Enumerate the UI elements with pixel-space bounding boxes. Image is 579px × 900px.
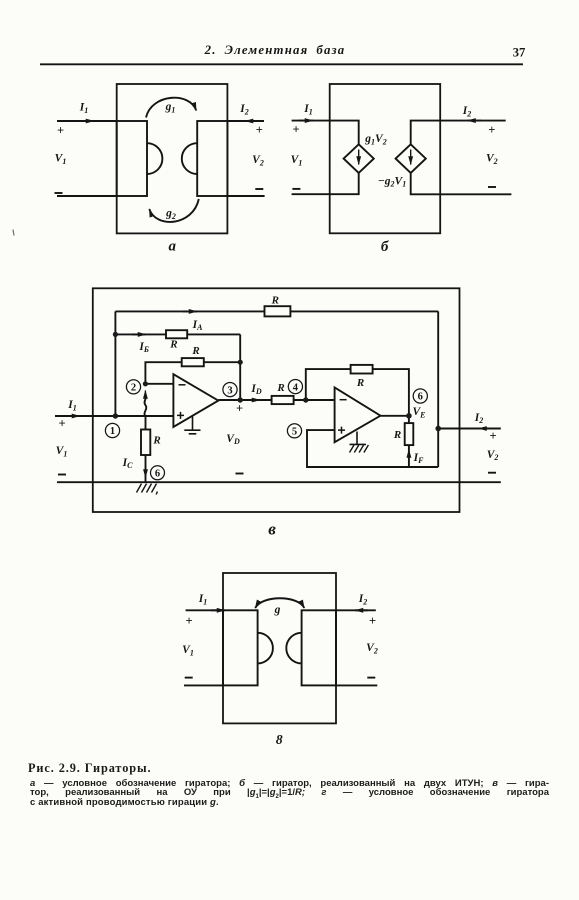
node 2 bbox=[126, 380, 140, 394]
port 2 bump (fig g) bbox=[286, 633, 301, 664]
port 1 semicircle bump bbox=[147, 143, 162, 174]
minus sign U1 bbox=[179, 384, 186, 386]
svg-text:I2: I2 bbox=[239, 103, 248, 116]
svg-text:+: + bbox=[58, 417, 65, 431]
svg-text:3: 3 bbox=[227, 385, 232, 396]
resistor R (node2 branch) bbox=[182, 358, 204, 366]
svg-text:+: + bbox=[369, 614, 376, 628]
svg-text:I2: I2 bbox=[474, 412, 483, 425]
op-amp U1 bbox=[173, 374, 218, 427]
gyrator outer box (fig a) bbox=[117, 84, 228, 233]
wire port1 top (fig b) bbox=[292, 121, 359, 145]
svg-text:2: 2 bbox=[131, 383, 136, 394]
port 2 rectangle (fig a) bbox=[197, 121, 227, 196]
header rule bbox=[40, 63, 523, 65]
node dot VE bbox=[406, 413, 412, 419]
svg-text:VD: VD bbox=[226, 433, 240, 446]
plus sign U2 bbox=[338, 427, 345, 434]
arrow IF up bbox=[408, 450, 410, 462]
node 6 at U2 output bbox=[413, 389, 427, 403]
figure caption bbox=[28, 761, 151, 776]
ground hatching at IC bbox=[137, 484, 158, 495]
arrow ID bbox=[246, 399, 260, 401]
ground under U2 bbox=[350, 432, 367, 445]
wire port2 top bbox=[227, 120, 264, 122]
minus sign V1 (fig a) bbox=[55, 192, 63, 194]
wire port2 top (fig g) bbox=[336, 609, 376, 611]
svg-text:+: + bbox=[488, 123, 495, 137]
svg-text:V1: V1 bbox=[56, 445, 68, 458]
svg-text:+: + bbox=[292, 122, 299, 136]
svg-text:а: а bbox=[169, 239, 177, 255]
output wire U2 bbox=[381, 415, 409, 417]
svg-text:б: б bbox=[381, 239, 389, 255]
svg-text:R: R bbox=[393, 429, 401, 441]
wire port1 bottom (fig g) bbox=[184, 684, 223, 686]
arrow IC down bbox=[145, 465, 147, 478]
wire port1 top bbox=[57, 120, 117, 122]
arrow I2 (fig v) bbox=[479, 428, 493, 430]
wire port2 top (fig b) bbox=[411, 121, 506, 145]
svg-text:R: R bbox=[191, 345, 199, 357]
source g2V1 diamond bbox=[396, 144, 426, 173]
arrow I1 (fig b) bbox=[299, 120, 313, 122]
svg-text:R: R bbox=[356, 377, 364, 389]
minus sign V1 (fig b) bbox=[292, 188, 300, 190]
g1 coupling arc with arrow bbox=[146, 98, 196, 118]
arrow inside right diamond bbox=[410, 150, 412, 165]
wire port2 bottom (fig g) bbox=[336, 684, 377, 686]
svg-text:IC: IC bbox=[122, 457, 133, 470]
svg-text:V2: V2 bbox=[486, 153, 498, 166]
svg-text:4: 4 bbox=[293, 382, 299, 393]
arrow I2 (fig a) bbox=[245, 120, 258, 122]
svg-text:R: R bbox=[276, 382, 284, 394]
minus sign U2 bbox=[340, 399, 347, 401]
minus sign left (fig v) bbox=[58, 474, 66, 476]
wire R to node 2 bbox=[145, 362, 240, 384]
wire node2 to U1 minus input bbox=[145, 383, 173, 385]
node dot 3 output U1 bbox=[238, 397, 243, 402]
svg-text:2. Элементная база: 2. Элементная база bbox=[204, 43, 346, 57]
outer box (fig v) bbox=[93, 288, 460, 512]
node dot 1 bbox=[113, 413, 118, 418]
wire port2 bottom bbox=[227, 195, 264, 197]
svg-text:6: 6 bbox=[418, 392, 423, 403]
up arrow to node 2 bbox=[144, 391, 146, 400]
node 3 bbox=[223, 383, 237, 397]
node 5 bbox=[287, 424, 301, 438]
minus sign V1 (fig g) bbox=[185, 677, 193, 679]
feedback R wire over U2 bbox=[306, 369, 409, 416]
right vertical from top wire to port2 bbox=[437, 311, 439, 467]
top feedback wire bbox=[115, 310, 438, 312]
arrow I2 (fig g) bbox=[355, 609, 368, 611]
svg-text:I1: I1 bbox=[79, 102, 88, 115]
minus sign V2 (fig g) bbox=[367, 677, 375, 679]
svg-text:V2: V2 bbox=[487, 449, 499, 462]
resistor R (ID branch) bbox=[272, 396, 294, 404]
g2 coupling arc with arrow bbox=[149, 199, 199, 222]
plus input wire U2 loop bbox=[307, 430, 438, 467]
svg-text:g: g bbox=[274, 604, 281, 616]
arrow inside left diamond bbox=[358, 150, 360, 165]
svg-text:5: 5 bbox=[292, 427, 297, 438]
resistor R (IF branch) bbox=[408, 416, 410, 423]
svg-text:IF: IF bbox=[413, 452, 424, 465]
right vertical of IA wire bbox=[239, 334, 241, 400]
gyrator outer box (fig b) bbox=[330, 84, 441, 233]
minus sign right (fig v) bbox=[488, 472, 496, 474]
node dot at R/node2 wire bbox=[238, 360, 243, 365]
svg-text:+: + bbox=[256, 123, 263, 137]
svg-text:V1: V1 bbox=[291, 154, 303, 167]
resistor R (IC branch) bbox=[145, 416, 147, 430]
node dot port2 junction bbox=[435, 426, 441, 432]
node dot on left bus at IA bbox=[113, 332, 118, 337]
arrow IБ bbox=[132, 333, 146, 335]
svg-text:I1: I1 bbox=[198, 593, 207, 606]
ground under U1 bbox=[184, 417, 200, 434]
port 2 rectangle (fig g) bbox=[302, 610, 336, 685]
svg-text:I1: I1 bbox=[67, 399, 76, 412]
svg-text:R: R bbox=[271, 294, 279, 306]
node dot 4 bbox=[303, 397, 308, 402]
arrow I1 (fig a) bbox=[80, 120, 94, 122]
svg-text:g1V2: g1V2 bbox=[364, 133, 386, 146]
svg-text:IA: IA bbox=[192, 319, 203, 332]
resistor R (IA branch) bbox=[166, 330, 187, 338]
svg-text:V2: V2 bbox=[252, 154, 264, 167]
svg-text:V2: V2 bbox=[366, 642, 378, 655]
port 2 semicircle bump bbox=[182, 143, 197, 174]
left vertical bus bbox=[114, 311, 116, 416]
svg-text:+: + bbox=[489, 429, 496, 443]
svg-text:IБ: IБ bbox=[138, 341, 149, 354]
svg-text:I2: I2 bbox=[462, 105, 471, 118]
wire port1 bottom (fig b) bbox=[292, 173, 359, 194]
svg-text:V1: V1 bbox=[182, 644, 194, 657]
svg-text:37: 37 bbox=[513, 45, 526, 59]
minus sign middle (fig v) bbox=[236, 473, 244, 475]
arrow I2 (fig b) bbox=[468, 120, 482, 122]
svg-text:R: R bbox=[152, 435, 160, 447]
plus sign U1 bbox=[177, 412, 184, 419]
gyrator outer box (fig g) bbox=[223, 573, 336, 723]
wire port2 bottom (fig b) bbox=[411, 173, 512, 194]
svg-text:g1: g1 bbox=[165, 101, 176, 114]
arrow I1 (fig g) bbox=[211, 609, 225, 611]
wire port1 top (fig g) bbox=[186, 609, 223, 611]
wire port2 (fig v) bbox=[438, 428, 501, 430]
node 1 bbox=[105, 423, 119, 437]
minus sign V2 (fig b) bbox=[488, 186, 496, 188]
node 6 at ground bbox=[151, 466, 165, 480]
node 4 bbox=[288, 380, 302, 394]
bottom common rail bbox=[57, 481, 501, 483]
svg-text:+: + bbox=[57, 123, 64, 137]
svg-text:−g2V1: −g2V1 bbox=[378, 175, 406, 188]
arrow on top feedback wire bbox=[183, 310, 197, 312]
source g1V2 diamond bbox=[344, 144, 374, 173]
svg-text:R: R bbox=[169, 338, 177, 350]
left margin tick bbox=[13, 230, 14, 236]
svg-text:+: + bbox=[185, 614, 192, 628]
port 1 rectangle (fig a) bbox=[117, 121, 147, 196]
wire IA bbox=[115, 333, 240, 335]
svg-text:ID: ID bbox=[250, 383, 261, 396]
svg-text:8: 8 bbox=[276, 732, 283, 747]
arrow I1 (fig v) bbox=[66, 415, 80, 417]
wire resistor to ground rail bbox=[145, 455, 147, 482]
svg-text:I2: I2 bbox=[358, 593, 367, 606]
port 1 rectangle (fig g) bbox=[223, 610, 258, 685]
output wire U1 to U2 bbox=[218, 399, 334, 401]
svg-text:g2: g2 bbox=[165, 208, 176, 221]
g double-arrow arc bbox=[255, 598, 304, 608]
svg-text:V1: V1 bbox=[55, 153, 67, 166]
svg-text:в: в bbox=[268, 520, 276, 539]
svg-text:1: 1 bbox=[110, 426, 115, 437]
svg-text:+: + bbox=[236, 401, 243, 415]
svg-text:6: 6 bbox=[155, 469, 160, 480]
input wire port1 (fig v) bbox=[55, 415, 173, 417]
port 1 bump (fig g) bbox=[258, 633, 273, 664]
wiggle wire with up arrow to node 2 bbox=[144, 395, 146, 416]
node dot 2 bbox=[143, 381, 148, 386]
junction dots (fig v) bbox=[113, 332, 441, 432]
svg-text:I1: I1 bbox=[303, 103, 312, 116]
svg-text:VE: VE bbox=[412, 406, 425, 419]
wire port1 bottom bbox=[57, 195, 117, 197]
resistor R top bbox=[265, 306, 291, 316]
minus sign V2 (fig a) bbox=[255, 188, 263, 190]
op-amp U2 bbox=[335, 388, 381, 443]
circled node numbers (fig v) bbox=[105, 380, 427, 480]
resistor R (U2 feedback) bbox=[351, 365, 373, 374]
